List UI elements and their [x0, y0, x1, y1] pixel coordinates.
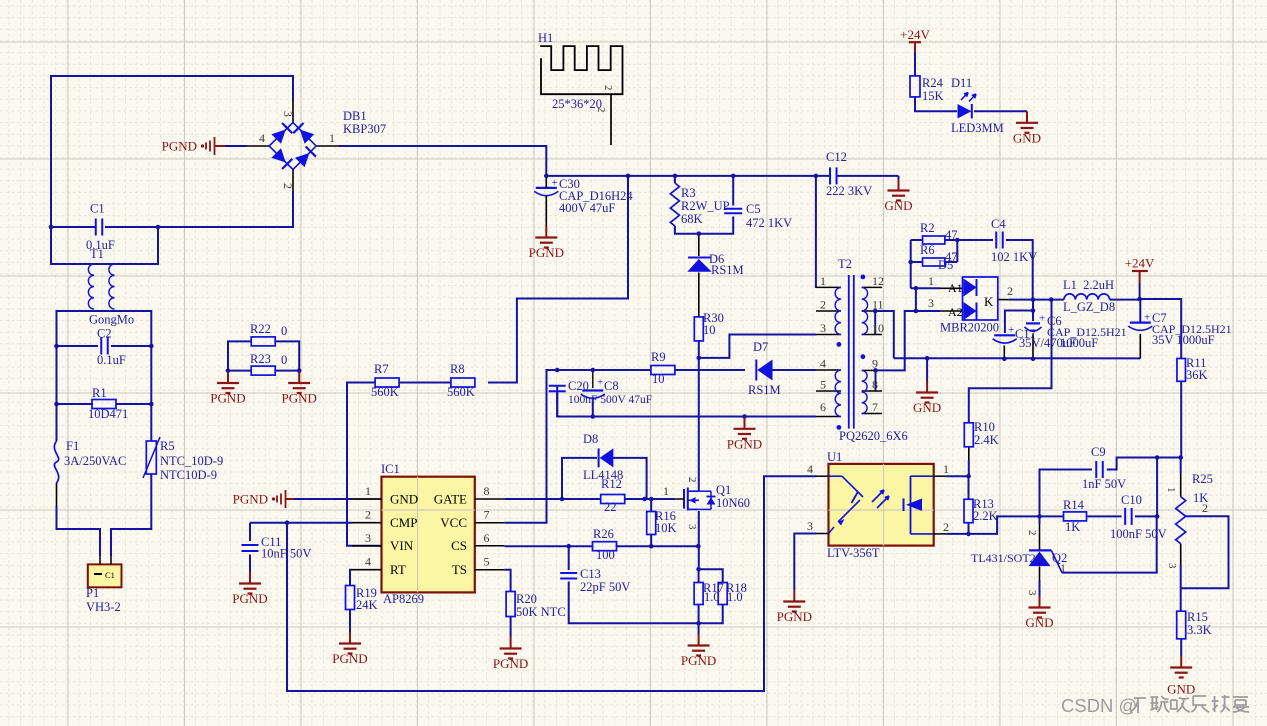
svg-text:1.0: 1.0	[704, 590, 720, 604]
wire C6 bottom	[1032, 334, 1034, 359]
svg-text:9: 9	[872, 357, 878, 371]
svg-text:PGND: PGND	[233, 492, 268, 507]
dual diode D5 MBR20200	[963, 277, 998, 320]
svg-text:68K: 68K	[681, 212, 703, 226]
ground GND under C12	[898, 176, 900, 179]
svg-text:1: 1	[663, 484, 669, 498]
svg-text:GND: GND	[1013, 130, 1041, 145]
svg-text:D11: D11	[951, 76, 972, 90]
bridge diode LL	[271, 148, 285, 162]
capacitor C13	[560, 572, 577, 574]
svg-text:PGND: PGND	[727, 436, 762, 451]
svg-text:L1 2.2uH: L1 2.2uH	[1063, 278, 1114, 292]
svg-text:PGND: PGND	[281, 391, 316, 406]
capacitor C7 polar	[1130, 322, 1151, 324]
resistor R14	[1064, 512, 1087, 521]
wire C12 right to GND	[837, 175, 899, 177]
wire C4 to K node	[1006, 240, 1033, 300]
svg-text:1nF 50V: 1nF 50V	[1082, 477, 1126, 491]
svg-text:10nF 50V: 10nF 50V	[261, 547, 311, 561]
svg-text:C20: C20	[568, 379, 589, 393]
capacitor C10	[1124, 508, 1126, 525]
svg-text:GND: GND	[884, 198, 912, 213]
svg-text:10: 10	[872, 321, 884, 335]
thermistor R5	[146, 441, 156, 474]
wire source to R17 R18	[698, 511, 700, 569]
svg-text:2: 2	[686, 477, 698, 483]
wire T1 bottom bar	[57, 311, 152, 346]
wire C13 column	[568, 546, 570, 570]
svg-text:1.0: 1.0	[727, 590, 743, 604]
svg-text:15K: 15K	[922, 89, 944, 103]
svg-text:C13: C13	[580, 567, 601, 581]
svg-text:C12: C12	[826, 150, 847, 164]
svg-text:VIN: VIN	[390, 538, 414, 553]
resistor R15	[1177, 611, 1186, 639]
svg-text:4: 4	[807, 462, 813, 476]
svg-text:R6: R6	[920, 243, 935, 257]
svg-text:R8: R8	[450, 362, 465, 376]
resistor R18	[718, 583, 727, 605]
wire C6 C17 risers	[1032, 300, 1034, 321]
wire left rail R1-F1-P1	[56, 404, 58, 441]
capacitor C2	[100, 338, 102, 355]
bridge pins	[292, 101, 294, 123]
resistor R2	[923, 236, 945, 244]
svg-text:RS1M: RS1M	[748, 383, 781, 397]
svg-text:R25: R25	[1192, 472, 1213, 486]
svg-text:472 1KV: 472 1KV	[746, 216, 792, 230]
U1 emission arrows	[872, 490, 884, 502]
svg-text:R22: R22	[250, 322, 271, 336]
wire R25 to R15	[1180, 588, 1182, 611]
wire R17 R18 bottoms	[698, 604, 700, 623]
svg-text:A2: A2	[948, 305, 963, 319]
svg-text:100: 100	[596, 548, 615, 562]
svg-text:PGND: PGND	[493, 656, 528, 671]
svg-text:PGND: PGND	[162, 139, 197, 154]
svg-text:6: 6	[820, 400, 826, 414]
ground PGND under R20	[510, 637, 512, 649]
svg-text:+: +	[1144, 312, 1150, 324]
wire bridge pin1 to C30 node	[339, 146, 546, 176]
svg-text:R23: R23	[250, 352, 271, 366]
wire K pin row	[998, 299, 1009, 301]
wire U1 pin3 to PGND	[794, 534, 816, 591]
choke T1 winding B	[109, 264, 115, 309]
svg-text:5: 5	[484, 555, 490, 569]
svg-text:2.2K: 2.2K	[973, 509, 998, 523]
svg-text:IC1: IC1	[381, 462, 400, 476]
svg-text:560K: 560K	[371, 385, 399, 399]
potentiometer R25 zigzag	[1176, 497, 1186, 544]
svg-text:10D471: 10D471	[88, 407, 128, 421]
svg-text:4: 4	[365, 555, 371, 569]
svg-text:GND: GND	[390, 491, 418, 506]
svg-text:Q1: Q1	[716, 483, 731, 497]
wire TL431 ref loop	[1062, 516, 1157, 572]
svg-text:R15: R15	[1187, 610, 1208, 624]
svg-text:R7: R7	[374, 362, 389, 376]
svg-text:GND: GND	[1025, 615, 1053, 630]
svg-text:T1: T1	[90, 247, 104, 261]
svg-text:100nF 500V 47uF: 100nF 500V 47uF	[568, 394, 652, 406]
svg-text:100nF 50V: 100nF 50V	[1110, 527, 1167, 541]
svg-text:+24V: +24V	[900, 27, 930, 42]
svg-text:11: 11	[872, 298, 884, 312]
svg-text:C1: C1	[105, 570, 115, 580]
svg-text:VH3-2: VH3-2	[86, 600, 121, 614]
ground PGND under R17 R18	[698, 623, 700, 634]
wire T2 pin11 pin10 tie	[874, 311, 876, 335]
wire R11 column	[1140, 299, 1182, 359]
wire CMP row	[250, 522, 352, 524]
wire CMP feedback bottom rail	[287, 476, 817, 691]
svg-text:2: 2	[1026, 530, 1038, 536]
svg-text:PGND: PGND	[232, 591, 267, 606]
svg-text:0.1uF: 0.1uF	[97, 353, 126, 367]
bridge diode UR	[300, 130, 314, 144]
wire R25 pin3	[1180, 544, 1182, 565]
svg-text:GongMo: GongMo	[89, 313, 134, 327]
svg-text:GND: GND	[913, 400, 941, 415]
wire output K row	[1009, 299, 1064, 301]
svg-text:1: 1	[943, 462, 949, 476]
svg-text:+: +	[1008, 324, 1014, 336]
wire T2 pin9 pin8 tie	[875, 370, 877, 391]
svg-text:R9: R9	[651, 350, 666, 364]
wire C11 column	[249, 523, 251, 541]
U1 photodiode	[903, 499, 905, 512]
power port +24V output	[1132, 270, 1148, 272]
resistor R20	[506, 592, 515, 617]
wire top node to R25	[1180, 458, 1182, 474]
wire R23 row	[228, 370, 252, 372]
svg-text:1: 1	[1060, 561, 1066, 575]
capacitor C8 polar	[582, 389, 603, 391]
wire bridge pin2 to C1 rail	[158, 191, 293, 227]
bridge DB1 diamond	[269, 123, 316, 170]
transformer T2 core	[848, 275, 850, 429]
wire D8 loop	[562, 458, 597, 499]
wire GATE row	[352, 498, 382, 500]
svg-text:22pF 50V: 22pF 50V	[580, 580, 630, 594]
wire +24V to R24	[914, 52, 916, 76]
wire C2 row	[57, 345, 99, 347]
svg-text:D5: D5	[938, 258, 953, 272]
svg-text:R5: R5	[160, 439, 175, 453]
svg-text:2: 2	[365, 508, 371, 522]
U1 pin stubs	[817, 475, 829, 477]
svg-text:8: 8	[484, 484, 490, 498]
svg-text:PGND: PGND	[681, 653, 716, 668]
connector P1 body	[88, 564, 122, 587]
svg-text:NTC10D-9: NTC10D-9	[160, 468, 217, 482]
resistor R3 zigzag	[670, 183, 679, 226]
diode D8	[598, 448, 600, 467]
svg-text:3: 3	[1026, 590, 1038, 596]
capacitor C12	[829, 167, 831, 184]
svg-text:7: 7	[484, 508, 490, 522]
resistor R19	[346, 586, 355, 610]
wire R22 R23 left	[228, 341, 252, 370]
diode D6	[688, 257, 710, 259]
capacitor C11	[242, 544, 259, 546]
resistor R10	[964, 423, 973, 447]
wire bus to T2 pin1	[815, 176, 817, 288]
svg-text:GND: GND	[1167, 682, 1195, 697]
wire Q2 anode to GND	[1039, 567, 1041, 581]
T2 primary winding	[835, 287, 841, 334]
wire +24V stub	[1139, 283, 1141, 299]
svg-text:DB1: DB1	[343, 109, 367, 123]
ground GND secondary	[926, 358, 928, 381]
wire R7 to VIN	[347, 383, 382, 546]
svg-text:35V 1000uF: 35V 1000uF	[1152, 333, 1215, 347]
bridge diode LR	[295, 153, 309, 167]
wire C20 bottom stub	[556, 393, 558, 417]
svg-text:12: 12	[872, 274, 884, 288]
wire R13 to divider	[968, 476, 970, 499]
wire R14 row	[1040, 515, 1064, 517]
resistor R11	[1177, 359, 1186, 382]
ground PGND under R22	[227, 370, 229, 373]
svg-text:T2: T2	[838, 257, 852, 271]
svg-text:PGND: PGND	[210, 391, 245, 406]
wire C17 bottom	[1003, 346, 1005, 359]
wire D5 A2 row	[916, 310, 940, 312]
wire VCC riser and cap rail	[352, 522, 382, 524]
wire right rail C2-R1	[150, 346, 152, 404]
wire TL431 node up to C9	[1040, 470, 1093, 517]
svg-text:MBR20200: MBR20200	[940, 321, 999, 335]
svg-text:2: 2	[943, 520, 949, 534]
svg-text:C8: C8	[604, 379, 619, 393]
svg-text:10K: 10K	[655, 521, 677, 535]
svg-text:222 3KV: 222 3KV	[826, 184, 872, 198]
resistor R17	[694, 583, 703, 605]
svg-text:2: 2	[1007, 284, 1013, 298]
wire TS to R20	[352, 569, 382, 571]
wire L1 to +24V node	[1110, 299, 1140, 301]
svg-text:PQ2620_6X6: PQ2620_6X6	[839, 429, 908, 443]
wire GND pin1 row	[294, 498, 352, 500]
wire CS row	[352, 545, 382, 547]
svg-text:+: +	[552, 177, 558, 189]
wire C20 bottom rail to T2 pin6	[557, 386, 816, 417]
svg-text:2: 2	[281, 183, 295, 189]
svg-text:H1: H1	[538, 31, 553, 45]
wire C9 right to top node	[1107, 458, 1181, 470]
svg-text:C1: C1	[90, 202, 105, 216]
ground PGND under R19	[349, 632, 351, 644]
T2 pin stubs	[816, 286, 841, 288]
inductor L1	[1064, 294, 1110, 300]
svg-text:C2: C2	[97, 327, 112, 341]
H1 pin	[610, 94, 612, 145]
ground GND under Q2	[1039, 596, 1041, 608]
svg-text:0: 0	[281, 353, 287, 367]
svg-text:C10: C10	[1121, 493, 1142, 507]
wire R15 to GND	[1180, 639, 1182, 656]
svg-text:24K: 24K	[356, 598, 378, 612]
wire C20 C8 top rail to R9	[557, 369, 651, 371]
capacitor C30	[536, 187, 557, 189]
wire left rail C2-R1	[56, 346, 58, 404]
resistor R12	[601, 495, 625, 504]
resistor R9	[651, 366, 675, 375]
wire R25 wiper loop	[1181, 516, 1229, 588]
connector P1 pin marks	[94, 573, 102, 575]
svg-text:VCC: VCC	[440, 515, 467, 530]
svg-text:5: 5	[820, 378, 826, 392]
svg-text:LTV-356T: LTV-356T	[827, 546, 880, 560]
svg-text:R14: R14	[1063, 498, 1085, 512]
wire T1 top box	[51, 227, 158, 264]
ground GND under R15	[1180, 656, 1182, 668]
T2 aux winding	[835, 370, 841, 417]
wire C10 right	[1135, 515, 1157, 517]
wire U1 pin1 to R13 top	[946, 475, 968, 477]
wire A1 A2 tie	[915, 288, 917, 311]
svg-text:R2: R2	[920, 221, 935, 235]
IC1 pin stubs	[352, 498, 382, 500]
wire U1 pin2 row to TL431 node	[946, 533, 968, 535]
capacitor C20	[549, 385, 566, 387]
svg-text:LED3MM: LED3MM	[951, 121, 1004, 135]
svg-text:GATE: GATE	[434, 491, 467, 506]
svg-text:10N60: 10N60	[716, 496, 750, 510]
svg-text:PGND: PGND	[332, 651, 367, 666]
svg-text:2: 2	[595, 107, 607, 113]
svg-text:1000uF: 1000uF	[1060, 336, 1098, 350]
capacitor C9	[1095, 461, 1097, 478]
resistor R6	[923, 258, 945, 266]
wire secondary GND rail	[894, 357, 1141, 359]
svg-text:R10: R10	[974, 420, 995, 434]
capacitor C1	[95, 219, 97, 236]
ground PGND under R23 right	[298, 370, 300, 373]
varistor R1	[92, 400, 116, 409]
svg-text:1: 1	[820, 274, 826, 288]
choke T1 winding A	[88, 264, 94, 309]
svg-text:NTC_10D-9: NTC_10D-9	[160, 454, 223, 468]
svg-text:RS1M: RS1M	[711, 263, 744, 277]
junction dots	[49, 225, 54, 230]
IC body IC1 AP8269	[382, 477, 475, 593]
svg-text:D7: D7	[753, 340, 768, 354]
svg-text:2.4K: 2.4K	[974, 433, 999, 447]
capacitor C17 polar	[994, 334, 1015, 336]
fuse F1	[54, 441, 58, 483]
T2 polarity dots	[861, 275, 866, 280]
svg-text:4: 4	[820, 357, 826, 371]
resistor R22	[251, 337, 275, 346]
T2 sec winding upper	[862, 287, 868, 334]
resistor R30	[694, 317, 703, 341]
svg-text:10: 10	[703, 323, 716, 337]
mosfet Q1 body diode	[699, 490, 711, 492]
svg-text:25*36*20: 25*36*20	[552, 97, 602, 111]
svg-text:560K: 560K	[447, 385, 475, 399]
svg-text:D8: D8	[583, 432, 598, 446]
wire R10 column to K node	[968, 447, 970, 460]
wire R16 column	[650, 499, 652, 511]
wire D5 A1 row	[911, 287, 940, 289]
svg-text:400V 47uF: 400V 47uF	[559, 201, 615, 215]
capacitor C4	[995, 232, 997, 249]
wire AC top loop	[51, 76, 293, 227]
wire R1 row	[57, 403, 94, 405]
U1 internals LED	[829, 475, 843, 477]
svg-text:CSDN @: CSDN @	[1061, 695, 1137, 716]
svg-text:R24: R24	[922, 76, 944, 90]
capacitor C5	[724, 208, 742, 210]
ground PGND under U1 pin3	[793, 590, 795, 602]
svg-text:R1: R1	[92, 386, 107, 400]
resistor R23	[251, 366, 275, 375]
wire R7-R8	[399, 382, 451, 384]
svg-text:A1: A1	[948, 281, 963, 295]
svg-text:1: 1	[329, 131, 335, 145]
wire C1 row left	[51, 226, 95, 228]
svg-text:3: 3	[686, 524, 698, 530]
svg-text:PGND: PGND	[777, 609, 812, 624]
resistor R7	[375, 378, 399, 387]
svg-text:3.3K: 3.3K	[1187, 623, 1212, 637]
power port +24V top	[909, 41, 921, 43]
resistor R13	[964, 499, 973, 523]
wire D6 R30 column	[698, 234, 700, 256]
svg-text:3: 3	[807, 519, 813, 533]
TL431 Q2	[1029, 549, 1051, 551]
svg-text:2: 2	[1202, 501, 1208, 515]
wire R2 R6 left rail	[910, 240, 912, 288]
wire R24 to D11	[915, 97, 957, 111]
svg-text:2: 2	[820, 298, 826, 312]
svg-text:50K NTC: 50K NTC	[516, 605, 566, 619]
T2 sec winding lower	[862, 370, 867, 413]
wire C10 node riser	[1156, 458, 1158, 517]
svg-text:R2W_UP: R2W_UP	[681, 199, 730, 213]
svg-text:R20: R20	[516, 592, 537, 606]
diode D7	[755, 360, 757, 381]
capacitor C6 polar	[1026, 322, 1040, 324]
svg-text:102 1KV: 102 1KV	[991, 250, 1037, 264]
wire bus to R8 startup	[488, 176, 628, 383]
svg-text:0: 0	[281, 324, 287, 338]
svg-text:CMP: CMP	[390, 515, 417, 530]
P1 pins	[99, 556, 101, 564]
U1 phototransistor	[910, 476, 912, 534]
svg-text:3: 3	[1166, 563, 1178, 569]
svg-text:+: +	[597, 377, 603, 389]
svg-text:1: 1	[1165, 487, 1177, 493]
svg-text:7: 7	[872, 400, 878, 414]
svg-text:KBP307: KBP307	[343, 122, 386, 136]
wire R3/C5 bottom rail	[675, 217, 733, 234]
wire C5 top	[732, 176, 734, 206]
wire R2 R6 pins	[911, 239, 923, 241]
ground PGND under C30	[545, 226, 547, 238]
svg-text:6: 6	[484, 531, 490, 545]
bridge diode UL	[271, 130, 285, 144]
svg-text:1: 1	[365, 484, 371, 498]
wire R22 R23 right	[275, 341, 299, 370]
svg-text:PGND: PGND	[529, 245, 564, 260]
wire D7 to T2 pin4	[772, 369, 816, 371]
wire pin3 branch	[699, 335, 816, 358]
